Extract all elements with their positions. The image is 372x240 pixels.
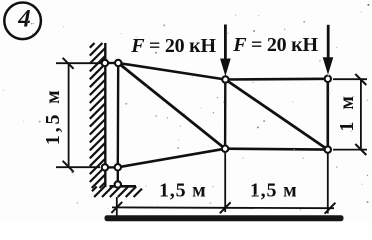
wall hatching bbox=[90, 43, 106, 188]
node TM bbox=[222, 76, 228, 82]
node TR bbox=[325, 76, 331, 82]
extension line bottom left bbox=[56, 166, 100, 168]
member: diagonal TM-BR bbox=[225, 80, 327, 150]
member: middle vertical TM-BM bbox=[224, 80, 227, 149]
member: top chord right (TM-TR) bbox=[225, 78, 327, 81]
member: link BL1-BL2 bbox=[105, 166, 118, 168]
extension line below support bbox=[116, 197, 118, 217]
svg-text:4: 4 bbox=[17, 6, 31, 33]
svg-text:1,5 м: 1,5 м bbox=[250, 179, 298, 201]
member: wall vertical TL2-BL2 bbox=[117, 63, 120, 167]
dimension line bottom bbox=[112, 206, 334, 209]
wall edge line / member TL1-BL1 bbox=[104, 43, 106, 187]
member: diagonal TL2-BM bbox=[118, 63, 225, 149]
extension line top right bbox=[333, 78, 367, 80]
svg-text:1 м: 1 м bbox=[336, 92, 358, 131]
node TL2 bbox=[115, 60, 121, 66]
svg-text:1,5 м: 1,5 м bbox=[42, 87, 64, 145]
tick bottom right bbox=[325, 203, 336, 214]
svg-text:F = 20 кН: F = 20 кН bbox=[232, 34, 318, 56]
tick bottom left bbox=[111, 202, 122, 213]
node S (support pin) bbox=[115, 181, 121, 187]
support ground line bbox=[110, 185, 137, 188]
extension line top left bbox=[56, 62, 105, 64]
force arrow F1 bbox=[220, 25, 231, 77]
dimension line right (1 м) bbox=[360, 79, 362, 149]
tick right top bbox=[355, 74, 366, 85]
tick left top bbox=[63, 58, 74, 69]
support ground hatching bbox=[92, 187, 142, 198]
extension line below BR bbox=[327, 152, 329, 214]
member: bottom chord right (BM-BR) bbox=[225, 147, 328, 151]
dimension line left (1,5 м) bbox=[68, 63, 70, 167]
node BR bbox=[325, 146, 331, 152]
member: bottom chord left (BL2-BM) bbox=[118, 149, 225, 168]
node BL1 bbox=[102, 164, 108, 170]
tick right bottom bbox=[355, 144, 366, 155]
force arrow F2 bbox=[323, 25, 334, 75]
support stem BL2-S bbox=[117, 167, 119, 184]
svg-text:F = 20 кН: F = 20 кН bbox=[130, 35, 216, 57]
extension line below BM bbox=[224, 151, 226, 212]
problem number badge "4" bbox=[4, 3, 41, 40]
scan artifact bar (bottom) bbox=[105, 215, 344, 221]
svg-text:1,5 м: 1,5 м bbox=[159, 179, 207, 201]
extension line bottom right bbox=[333, 149, 367, 151]
tick bottom middle bbox=[220, 202, 231, 213]
tick left bottom bbox=[63, 161, 74, 172]
member: right vertical TR-BR bbox=[326, 79, 329, 150]
node TL1 bbox=[102, 60, 108, 66]
member: link TL1-TL2 bbox=[105, 62, 118, 64]
member: top chord left (TL2-TM) bbox=[118, 63, 225, 80]
node BL2 bbox=[115, 164, 121, 170]
node BM bbox=[222, 146, 228, 152]
